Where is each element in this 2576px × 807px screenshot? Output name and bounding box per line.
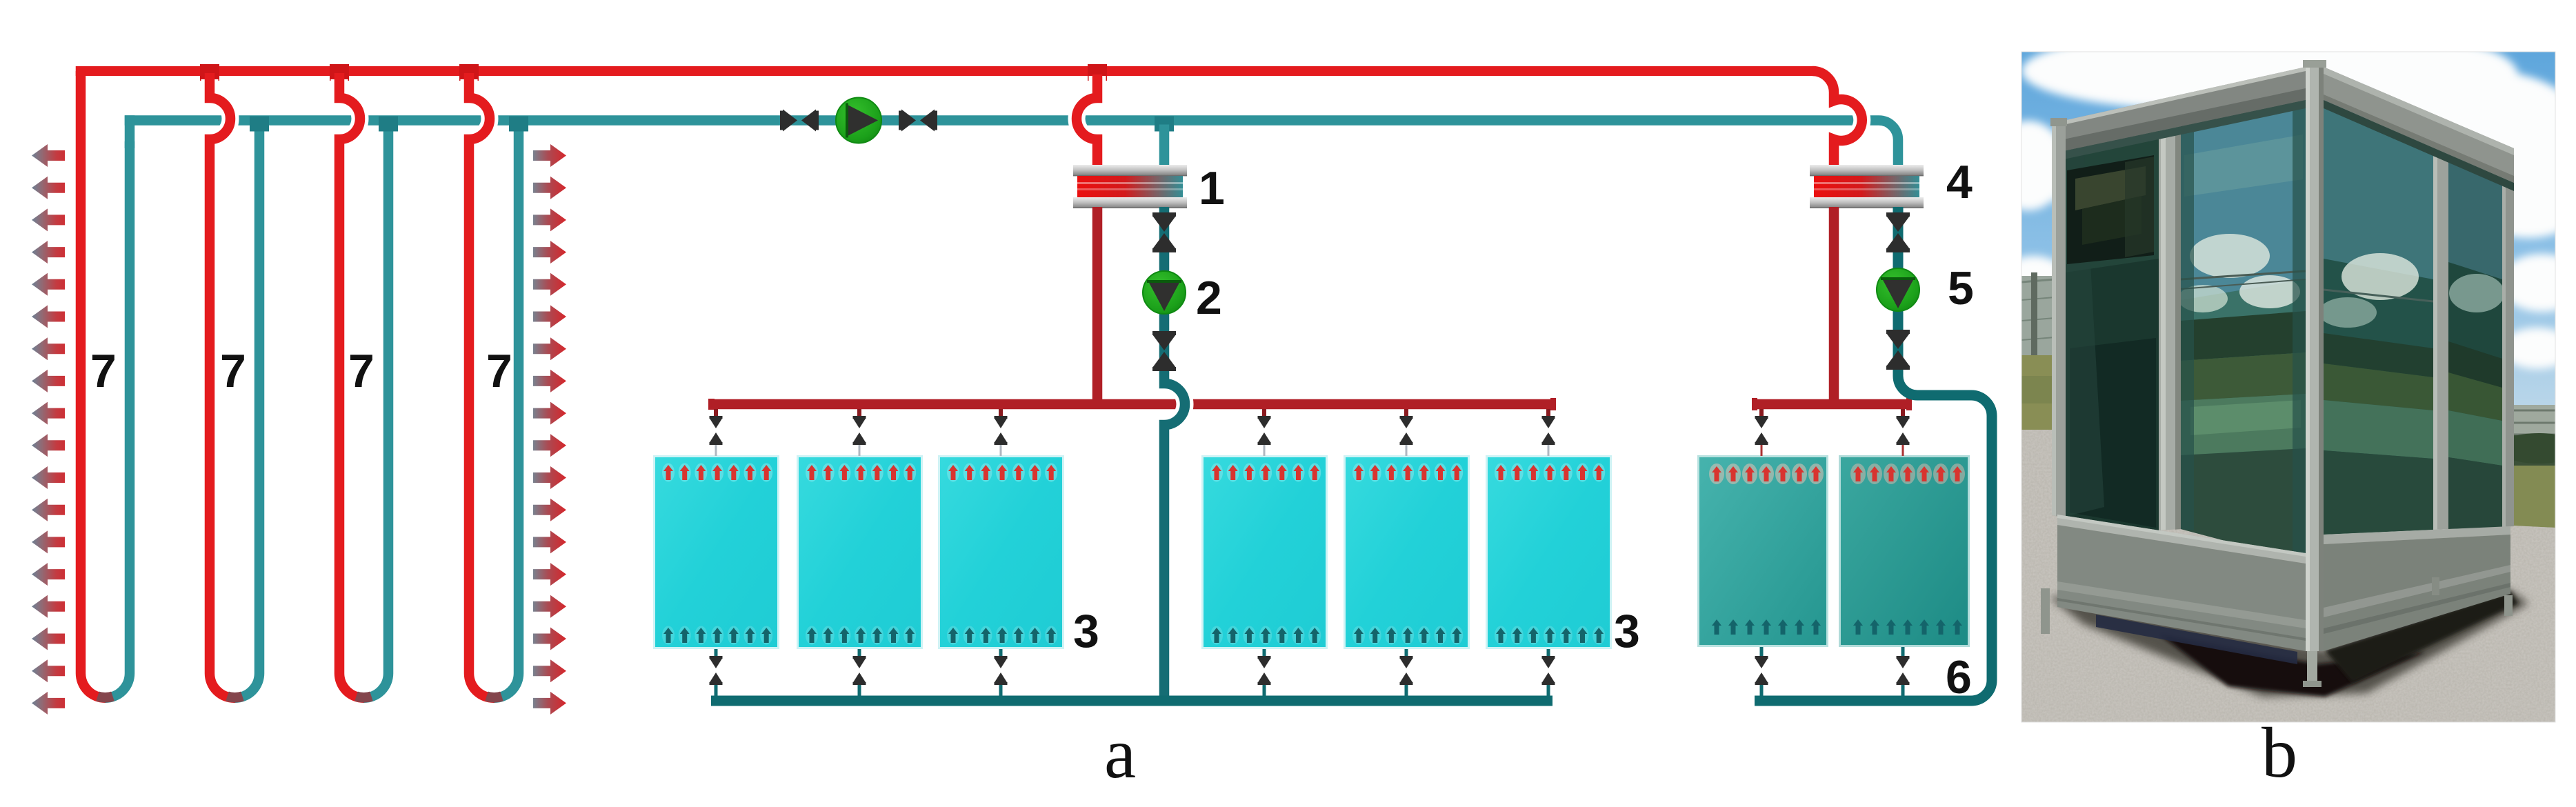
radiator panel 6-1 <box>1697 455 1828 647</box>
booth legs <box>2041 577 2513 687</box>
wire teal drop into HX1 <box>1159 125 1170 168</box>
radiator panel 3-5 <box>1344 455 1470 649</box>
svg-text:7: 7 <box>486 345 512 397</box>
valve pair below radiator 6-1 <box>1755 647 1768 697</box>
node red tee U3 <box>330 64 349 81</box>
radiator panel 3-3 <box>938 455 1064 649</box>
svg-text:3: 3 <box>1073 605 1099 657</box>
node teal tee U2 <box>250 117 269 132</box>
svg-text:4: 4 <box>1946 156 1973 208</box>
pump 5 <box>1877 268 1919 311</box>
valve pair above radiator 6-1 <box>1755 409 1768 456</box>
valve pair below radiator 3-2 <box>853 649 866 697</box>
stub valves group B tops <box>1755 409 1910 456</box>
wire red U-tube 1 left leg <box>81 71 106 698</box>
valve pair above pump 2 <box>1152 212 1176 252</box>
booth right post2 <box>2433 150 2448 530</box>
svg-text:6: 6 <box>1946 651 1972 704</box>
valve pair above radiator 3-5 <box>1400 409 1413 456</box>
valve pair above radiator 3-4 <box>1258 409 1271 456</box>
caption b <box>2262 713 2297 793</box>
booth right face glass B <box>2448 157 2504 529</box>
wire dark red below HX1 down to radiator supply header A <box>1092 207 1103 404</box>
valve pair below radiator 3-4 <box>1258 649 1271 697</box>
node U-bend blend at x=527.5 <box>357 697 372 698</box>
wire red right end elbow + bridge down to HX4 <box>1813 71 1862 167</box>
svg-text:2: 2 <box>1196 272 1222 324</box>
booth bottom rail right <box>2324 526 2510 544</box>
label 1 <box>1199 162 1225 215</box>
valve pair below radiator 3-1 <box>710 649 723 697</box>
valve pair above radiator 3-6 <box>1542 409 1555 456</box>
photo frame edge <box>2021 52 2555 722</box>
valve pair below radiator 3-3 <box>995 649 1008 697</box>
heat exchanger 1 <box>1073 165 1187 208</box>
wire red U-tube 3 left leg with bridge over teal line <box>339 73 364 698</box>
label 7 borehole 1 <box>90 345 117 397</box>
heat exchanger 4 <box>1810 165 1924 208</box>
valve pair below pump 5 <box>1886 330 1910 370</box>
wire teal U-tube 3 right leg <box>364 123 389 698</box>
booth left face glass <box>2066 130 2159 530</box>
radiator group B <box>1697 455 1972 704</box>
node red tee U4 <box>459 64 479 81</box>
stub valves group B bottoms <box>1755 647 1910 697</box>
wire red U-tube 4 left leg with bridge over teal line <box>469 73 495 698</box>
wire teal main horizontal supply line <box>125 115 1879 148</box>
valve pair above radiator 3-1 <box>710 409 723 456</box>
valve pair above radiator 6-2 <box>1897 409 1910 456</box>
wire teal right end elbow down into HX4 <box>1879 121 1898 168</box>
svg-text:7: 7 <box>90 345 117 397</box>
booth roof right fascia <box>2324 67 2514 191</box>
left ground heat arrows column <box>32 144 65 715</box>
node U-bend blend at x=152.5 <box>98 697 113 698</box>
booth ground shadow <box>2049 590 2528 697</box>
node red tee HX1 drop <box>1088 64 1107 81</box>
label 4 <box>1946 156 1973 208</box>
photo sky <box>2021 52 2555 452</box>
svg-text:5: 5 <box>1948 262 1974 315</box>
caption a <box>1104 714 1136 793</box>
valve pair V1 on teal line <box>780 110 819 132</box>
svg-text:7: 7 <box>220 345 246 397</box>
booth bottom panel left <box>2057 525 2306 651</box>
wire dark teal return header A <box>711 696 1552 706</box>
booth left mullion <box>2159 126 2181 530</box>
valve pair below radiator 6-2 <box>1897 647 1910 697</box>
radiator panel 3-1 <box>653 455 779 649</box>
node U-bend blend at x=340.5 <box>228 697 243 698</box>
label 3 left <box>1073 605 1099 657</box>
radiator panel 3-4 <box>1201 455 1328 649</box>
node teal tee U3 <box>379 117 398 132</box>
label 2 <box>1196 272 1222 324</box>
wire dark red below HX4 down to radiator supply header B <box>1829 207 1839 404</box>
wire dark red radiator supply header A <box>708 398 1556 410</box>
svg-text:3: 3 <box>1614 605 1640 657</box>
valve pair above pump 5 <box>1886 212 1910 252</box>
label 6 <box>1946 651 1972 704</box>
valve pair V2 on teal line <box>899 110 937 132</box>
photo gravel ground <box>2021 430 2555 722</box>
wire dark teal pump-5 line, jog and right riser to return header B <box>1755 207 1992 701</box>
right ground heat arrows column <box>533 144 566 715</box>
svg-text:7: 7 <box>348 345 375 397</box>
valve pair below radiator 3-5 <box>1400 649 1413 697</box>
photo right strip: fence, hedge, grass <box>2497 405 2576 529</box>
wire dark teal pump line below HX1 with bridge over header A <box>1164 207 1185 701</box>
booth vent unit <box>2067 155 2154 264</box>
svg-text:1: 1 <box>1199 162 1225 215</box>
pump P0 on teal line <box>836 98 881 143</box>
valve pair above radiator 3-2 <box>853 409 866 456</box>
valve pair below radiator 3-6 <box>1542 649 1555 697</box>
photo clouds <box>1990 33 2576 369</box>
photo left strip: distant fence, grass, gravel <box>2021 272 2055 432</box>
wire teal U-tube 2 right leg <box>235 123 260 698</box>
booth right edge post <box>2502 181 2514 527</box>
label 7 borehole 4 <box>486 345 512 397</box>
wire teal U-tube 4 right leg <box>495 123 519 698</box>
node U-bend blend at x=716.5 <box>487 697 502 698</box>
valve pair above radiator 3-3 <box>995 409 1008 456</box>
label 7 borehole 3 <box>348 345 375 397</box>
radiator panel 3-6 <box>1486 455 1612 649</box>
booth front glass (see-through) <box>2178 99 2306 562</box>
DIAGRAM PART a <box>76 64 1992 701</box>
wire dark red radiator supply header B <box>1752 398 1912 410</box>
wire red drop to HX1 with bridge over teal line (bulge left) <box>1077 74 1097 167</box>
node red tee U2 <box>200 64 219 81</box>
label 3 right <box>1614 605 1640 657</box>
label 5 <box>1948 262 1974 315</box>
booth left edge trim <box>2050 118 2067 518</box>
svg-text:b: b <box>2262 713 2297 793</box>
radiator group A with stub valves <box>653 455 1640 657</box>
wire red main top supply line <box>76 66 1815 93</box>
node teal tee HX1 drop <box>1155 117 1174 132</box>
booth corner post <box>2303 60 2326 651</box>
radiator panel 6-2 <box>1839 455 1970 647</box>
wire teal U-tube 1 right leg <box>106 141 130 698</box>
node teal tee U4 <box>509 117 528 132</box>
booth bottom panel right <box>2324 535 2510 651</box>
booth bottom rail left <box>2057 515 2306 564</box>
label 7 borehole 2 <box>220 345 246 397</box>
stub valves group A bottoms <box>710 649 1555 697</box>
svg-text:a: a <box>1104 714 1136 793</box>
booth roof left fascia <box>2054 67 2306 161</box>
booth right face glass A <box>2319 101 2433 535</box>
stub valves group A tops <box>710 409 1555 456</box>
pump 2 <box>1143 271 1186 314</box>
radiator panel 3-2 <box>797 455 923 649</box>
wire red U-tube 2 left leg with bridge over teal line <box>210 73 235 698</box>
valve pair below pump 2 <box>1152 331 1176 371</box>
PHOTO b <box>1990 33 2576 722</box>
